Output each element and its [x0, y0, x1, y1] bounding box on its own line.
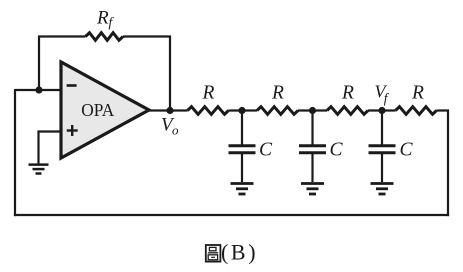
- capacitor C2 lead top: [311, 111, 313, 146]
- wire feedback top right segment: [123, 37, 170, 111]
- svg-text:f: f: [384, 90, 390, 105]
- node 2: [309, 107, 316, 114]
- capacitor C1 lead top: [241, 111, 243, 146]
- resistor Rf: [86, 33, 124, 41]
- wire node3 segment: [368, 109, 396, 111]
- ground C2: [301, 184, 324, 195]
- resistor R4: [396, 107, 437, 115]
- svg-text:C: C: [330, 140, 344, 161]
- svg-text:R: R: [341, 83, 354, 104]
- op-amp minus sign: [67, 84, 77, 87]
- svg-text:C: C: [259, 140, 273, 161]
- capacitor C3 plates: [369, 146, 396, 153]
- resistor R2: [257, 107, 298, 115]
- svg-text:o: o: [172, 123, 179, 138]
- resistor R3: [327, 107, 368, 115]
- wire right loop vertical: [437, 111, 449, 217]
- svg-text:R: R: [96, 8, 109, 29]
- wire feedback top left segment: [39, 37, 86, 91]
- svg-text:OPA: OPA: [81, 100, 115, 120]
- node 3 (Vf): [378, 107, 385, 114]
- op-amp U1: [61, 62, 149, 158]
- caption glyph 圖: [206, 245, 221, 262]
- ground op-amp non-inverting input: [29, 165, 49, 174]
- capacitor C3 lead bottom: [381, 153, 383, 182]
- node 1: [238, 107, 245, 114]
- resistor R1: [188, 107, 229, 115]
- capacitor C1 lead bottom: [241, 153, 243, 182]
- ground C1: [231, 184, 254, 195]
- svg-text:R: R: [202, 83, 215, 104]
- svg-text:R: R: [271, 83, 284, 104]
- op-amp plus sign: [67, 125, 78, 136]
- svg-text:C: C: [400, 140, 414, 161]
- wire left loop vertical: [14, 89, 16, 216]
- svg-text:f: f: [109, 15, 115, 30]
- wire bottom loop: [14, 214, 449, 216]
- node at inverting input: [35, 86, 42, 93]
- capacitor C2 plates: [299, 146, 326, 153]
- wire node2 segment: [298, 109, 327, 111]
- wire inverting input: [15, 89, 61, 91]
- svg-text:R: R: [411, 83, 424, 104]
- wire non-inverting input: [39, 132, 62, 164]
- wire node1 segment: [229, 109, 258, 111]
- capacitor C3 lead top: [381, 111, 383, 146]
- wire output: [149, 109, 188, 111]
- capacitor C2 lead bottom: [311, 153, 313, 182]
- ground C3: [371, 184, 394, 195]
- capacitor C1 plates: [229, 146, 256, 153]
- node Vo: [166, 107, 173, 114]
- svg-text:(B): (B): [221, 240, 258, 265]
